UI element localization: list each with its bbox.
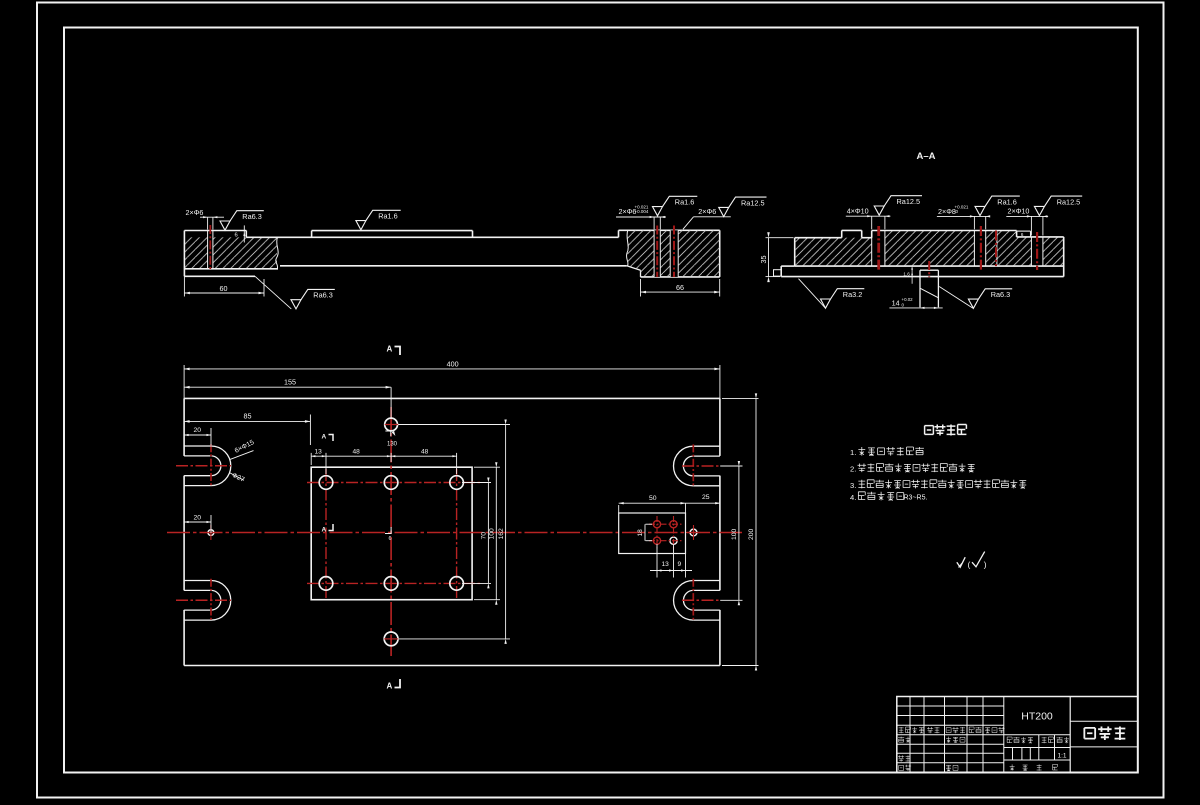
- roughness Ra12.5 on 4xΦ10 holes: [874, 196, 922, 216]
- plan: central boss square: [311, 467, 472, 600]
- A-A: internal wall line: [996, 231, 998, 267]
- plan: LL slot horizontal centerline (red): [176, 599, 231, 601]
- svg-text:6: 6: [389, 536, 392, 542]
- plan: side edge segment: [183, 476, 185, 591]
- cluster red centerline row1: [649, 523, 682, 525]
- A-A: small left tab on flange: [774, 270, 782, 276]
- svg-text:66: 66: [676, 283, 684, 292]
- A-A: body left edge: [794, 238, 796, 266]
- A-A: notch bottom / right block top: [1017, 236, 1064, 238]
- main view: right block step edge: [640, 270, 642, 277]
- svg-text:100: 100: [731, 528, 738, 540]
- svg-text:6: 6: [235, 233, 238, 239]
- A-A: top surface mid portion: [862, 237, 872, 239]
- roughness Ra1.6 on center boss top: [356, 210, 401, 230]
- main view: plate top edge: [246, 236, 618, 238]
- main view: dowel hole 2 right wall: [677, 230, 679, 277]
- svg-text:2×Φ6: 2×Φ6: [186, 208, 204, 217]
- plan: 4-hole cluster circles (red): [653, 521, 660, 528]
- A-A: Φ8 hole centerline (red): [980, 226, 982, 270]
- title block: 阶段标记/重量/比例: [1007, 737, 1033, 743]
- roughness Ra1.6 on right hole 1: [653, 196, 698, 216]
- main view: plate bottom edge: [280, 265, 627, 267]
- svg-text:): ): [984, 560, 987, 570]
- svg-text:2×Φ10: 2×Φ10: [1008, 207, 1030, 216]
- A-A: pad right edge: [861, 230, 863, 237]
- svg-text:48: 48: [421, 448, 429, 455]
- svg-text:Ra6.3: Ra6.3: [991, 290, 1010, 299]
- plan: hole at (326.0,482.5): [319, 476, 333, 490]
- main view: dowel hole 2 left wall: [669, 230, 671, 277]
- A-A: Φ10 hole 2 centerline (red): [1036, 232, 1038, 270]
- plan: LR slot horizontal centerline (red): [682, 599, 720, 601]
- plan: dimension 85: [309, 415, 311, 446]
- A-A: Φ10 hole left wall: [871, 231, 873, 267]
- plan: top hole on centerline: [385, 418, 398, 431]
- leader + roughness Ra6.3 under left foot: [255, 276, 291, 309]
- main view: 2xΦ6 hole centerline (red): [209, 225, 211, 271]
- svg-text:60: 60: [220, 284, 228, 293]
- svg-text:35: 35: [759, 256, 768, 264]
- plan: open slot at (693.3,600.3): [693, 580, 720, 582]
- main view: center boss right edge: [472, 231, 474, 238]
- title block texts: 设计 / 标准化: [898, 737, 910, 743]
- roughness Ra12.5 right end top: [719, 197, 767, 217]
- svg-text:Ra12.5: Ra12.5: [741, 198, 765, 207]
- title block: 共张第张 row: [1010, 764, 1015, 770]
- plan: slot vertical centerline (red): [692, 444, 694, 487]
- main view: right end edge: [719, 230, 721, 277]
- plan: center vertical centerline (red): [390, 407, 392, 656]
- plan: bottom hole red cross: [384, 638, 398, 640]
- main view: dowel hole 1 left wall: [653, 230, 655, 277]
- cluster red centerline col1: [656, 516, 658, 549]
- svg-text:400: 400: [447, 360, 459, 369]
- svg-text:(: (: [968, 560, 971, 570]
- main view: left boss right step: [245, 231, 247, 238]
- svg-text:2×Φ6: 2×Φ6: [698, 207, 716, 216]
- title block texts: 工艺 / 批准: [899, 765, 911, 771]
- svg-text:1.6: 1.6: [903, 272, 910, 277]
- svg-text:2×Φ8: 2×Φ8: [938, 207, 956, 216]
- plan: label 130 under top hole: [385, 431, 390, 436]
- svg-text:162: 162: [498, 528, 505, 540]
- A-A: pad left edge: [841, 230, 843, 237]
- A-A: bottom center key tab: [920, 269, 938, 271]
- A-A: notch top: [1017, 230, 1031, 232]
- plan: main horizontal centerline (red): [167, 532, 742, 534]
- surface roughness: [821, 289, 865, 309]
- svg-text:Ra6.3: Ra6.3: [313, 291, 332, 300]
- A-A: body right edge: [1063, 237, 1065, 277]
- title block: right section rows: [1070, 720, 1138, 722]
- plan: dimension 20 (top slot): [210, 428, 212, 447]
- svg-text:1:1: 1:1: [1057, 753, 1066, 760]
- main view: local-section break line (left): [276, 237, 278, 268]
- plan: right vertical dims 70/100/162: [462, 482, 491, 484]
- plan: dimension 50 / 25: [619, 502, 721, 504]
- roughness Ra12.5 on 2xΦ10 holes: [1034, 196, 1082, 216]
- svg-text:Ra6.3: Ra6.3: [242, 212, 261, 221]
- A-A: body bottom edge: [795, 265, 1064, 267]
- svg-text:Ra1.6: Ra1.6: [378, 212, 397, 221]
- svg-text:13: 13: [662, 561, 670, 568]
- plan: dimensions 13/48/48 on boss: [310, 453, 312, 465]
- svg-text:Ra12.5: Ra12.5: [1057, 197, 1081, 206]
- A-A: Φ10 hole 2 right wall: [1042, 237, 1044, 266]
- plan: hole at (391.1,583.4): [384, 577, 398, 591]
- plan: UL slot horizontal centerline (red): [176, 465, 231, 467]
- plan: side edge segment: [719, 476, 721, 591]
- main view: dowel hole 1 centerline (red): [656, 226, 658, 278]
- dimension 66 (right block): [640, 279, 642, 297]
- title block texts: revision header row: [899, 727, 911, 733]
- A-A: roughness Ra3.2 bottom left with leader: [799, 279, 826, 309]
- title block texts: 审核: [898, 755, 910, 761]
- plan: right dims 100/200: [720, 465, 742, 467]
- main view: right block left step: [618, 230, 620, 237]
- svg-text:1.: 1.: [850, 448, 856, 457]
- roughness Ra6.3 bottom of left foot: [291, 289, 335, 309]
- plan: slot vertical centerline (red): [210, 444, 212, 487]
- A-A: Φ8 hole left wall: [973, 231, 975, 267]
- main section view: hatched left end block: [184, 237, 277, 268]
- plan: open slot at (211.0,465.8): [184, 445, 211, 447]
- svg-text:85: 85: [244, 412, 252, 421]
- title block: left grid: [897, 705, 1004, 707]
- A-A: roughness Ra6.3 bottom right with leader: [939, 287, 973, 309]
- svg-text:100: 100: [489, 528, 496, 540]
- svg-text:25: 25: [702, 494, 710, 501]
- A-A: top surface left portion: [795, 237, 842, 239]
- main view: left boss top edge: [184, 230, 246, 232]
- A-A: pad top: [842, 229, 862, 231]
- main view: left foot bottom: [184, 275, 255, 277]
- svg-text:3.: 3.: [850, 481, 856, 490]
- svg-text:18: 18: [637, 529, 644, 537]
- main view: local-section break line (right): [626, 230, 628, 265]
- roughness Ra1.6 on 2xΦ8 holes: [975, 196, 1020, 216]
- plan: open slot at (211.0,600.3): [184, 580, 211, 582]
- svg-text:48: 48: [353, 448, 361, 455]
- dimension 60 (left foot): [183, 276, 185, 296]
- A-A: key tab centerline (red): [928, 261, 930, 277]
- plan: bottom edge: [184, 665, 720, 667]
- main view: 2xΦ6 hole left wall: [207, 231, 209, 269]
- plan: hole at (326.0,583.4): [319, 577, 333, 591]
- main view: hatched right end block: [628, 230, 720, 277]
- plan: hole at (391.1,482.5): [384, 476, 398, 490]
- A-A: step edge: [871, 231, 873, 238]
- A-A: notch right edge: [1030, 231, 1032, 237]
- svg-text:14: 14: [892, 298, 900, 307]
- plan: open slot at (693.3,466.0): [693, 445, 720, 447]
- main view: center boss left edge: [311, 231, 313, 238]
- main view: center boss top edge: [312, 230, 473, 232]
- svg-text:4×Φ10: 4×Φ10: [847, 206, 869, 215]
- plan: cluster dimensions 13 / 9: [656, 544, 658, 578]
- main view: left foot ledge top: [184, 268, 278, 270]
- cluster red centerline col2: [673, 516, 675, 549]
- plan: side edge segment: [719, 398, 721, 456]
- general roughness mark (checkmark symbols): [957, 557, 965, 567]
- main view: left end edge: [183, 231, 185, 277]
- plan: top edge: [184, 397, 720, 399]
- plan: small hole left red cross: [210, 525, 212, 540]
- plan: dimension 20 (bottom slot): [210, 515, 212, 533]
- svg-text:20: 20: [194, 515, 202, 522]
- svg-text:9: 9: [678, 561, 682, 568]
- A-A: flange bottom edge: [781, 276, 1063, 278]
- A-A: base flange: [781, 265, 795, 267]
- svg-text:A: A: [387, 682, 393, 691]
- cluster red centerline row2: [649, 540, 682, 542]
- plan: dimension 400 (top): [183, 365, 185, 398]
- roughness Ra6.3 on left boss top: [220, 211, 264, 231]
- plan: side edge segment: [183, 610, 185, 666]
- A-A: flange left edge: [780, 266, 782, 277]
- plan: UR slot horizontal centerline (red): [682, 465, 720, 467]
- main view: right block bottom edge: [641, 276, 720, 278]
- svg-text:13: 13: [315, 448, 323, 455]
- plan: slot vertical centerline (red): [210, 579, 212, 622]
- svg-text:A: A: [322, 434, 327, 441]
- svg-text:Ra1.6: Ra1.6: [997, 197, 1016, 206]
- svg-text:R3~R5.: R3~R5.: [904, 494, 928, 501]
- svg-text:50: 50: [649, 495, 657, 502]
- A-A: Φ10 hole centerline (red): [877, 226, 880, 270]
- main view: 2xΦ6 hole right wall: [212, 231, 214, 269]
- svg-text:4.: 4.: [850, 493, 856, 502]
- plan: hole at (456.6,482.5): [450, 476, 464, 490]
- svg-text:A: A: [322, 527, 327, 534]
- surface roughness: [968, 289, 1012, 309]
- svg-text:70: 70: [481, 532, 488, 540]
- main view: right block chamfer: [627, 266, 641, 271]
- main view: dowel hole 2 centerline (red): [673, 226, 675, 278]
- plan: slot vertical centerline (red): [692, 579, 694, 622]
- title block outline: [897, 697, 1138, 773]
- svg-text:A–A: A–A: [917, 151, 936, 162]
- svg-text:Ra1.6: Ra1.6: [675, 198, 694, 207]
- svg-text:20: 20: [194, 427, 202, 434]
- plan: side edge segment: [719, 610, 721, 666]
- A-A: Φ8 hole right wall: [985, 231, 987, 267]
- plan: top hole red cross: [385, 424, 399, 426]
- svg-text:A: A: [387, 345, 393, 354]
- plan: side edge segment: [183, 398, 185, 456]
- svg-text:130: 130: [387, 441, 398, 447]
- main view: right block top edge: [619, 229, 720, 231]
- svg-text:Ra3.2: Ra3.2: [843, 290, 862, 299]
- svg-text:+0.004: +0.004: [635, 209, 649, 214]
- svg-text:Ra12.5: Ra12.5: [897, 197, 921, 206]
- plan: cluster dimension 18: [644, 524, 646, 541]
- A-A: notch left edge: [1016, 231, 1018, 237]
- small step dimension 6: [243, 225, 245, 242]
- svg-text:155: 155: [284, 377, 296, 386]
- plan: small hole right red cross: [693, 525, 695, 540]
- svg-text:200: 200: [748, 528, 755, 540]
- A-A: key tab diagonal: [920, 288, 938, 298]
- A-A: Φ10 hole 2 left wall: [1030, 237, 1032, 266]
- svg-text:2.: 2.: [850, 465, 856, 474]
- main view: dowel hole 1 right wall: [659, 230, 661, 277]
- plan: small hole right: [690, 529, 697, 536]
- title block: part name 夹具体: [1084, 727, 1125, 741]
- plan: red centerlines of bolt circle grid: [325, 469, 327, 598]
- plan: bottom hole on centerline: [384, 632, 398, 646]
- A-A: red centerline at wall: [995, 231, 997, 267]
- A-A: Φ10 hole right wall: [884, 231, 886, 267]
- svg-text:HT200: HT200: [1021, 711, 1053, 723]
- A-A: dimension 35 (height): [766, 237, 794, 239]
- plan: dimension 155 (top): [390, 387, 392, 418]
- A-A: hatched cross-section areas: [795, 238, 872, 266]
- title block: middle section: [1004, 734, 1070, 736]
- svg-text:6: 6: [1021, 232, 1024, 238]
- plan: right 4-hole cluster boss rectangle: [619, 513, 686, 554]
- plan: small hole left: [208, 530, 214, 536]
- technical requirements title 技术要求: [925, 425, 967, 436]
- plan: hole at (456.6,583.4): [450, 577, 464, 591]
- A-A: top surface right portion: [872, 230, 1017, 232]
- plan: slot labels 6xΦ15 / Φ27 with leaders: [229, 451, 253, 460]
